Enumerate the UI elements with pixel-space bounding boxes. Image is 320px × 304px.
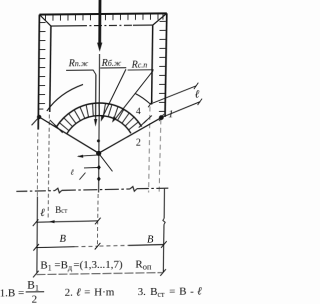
arch right end cap [135, 94, 150, 105]
svg-text:В1=Вд=(1,3...1,7)Rоп: В1=Вд=(1,3...1,7)Rоп [40, 258, 152, 272]
dimension line B right [99, 244, 128, 247]
upper incline line (ell offset) [150, 86, 196, 104]
wall right inner extension (dashed) [149, 107, 150, 193]
wall left inner line [50, 26, 51, 112]
wall left inner extension (dashed) [48, 114, 49, 220]
slash at right junction [159, 114, 164, 121]
arch left end hatch [50, 120, 63, 133]
svg-text:Rп.ж: Rп.ж [68, 58, 89, 69]
svg-text:ℓ: ℓ [40, 207, 45, 219]
diamond mark upper [97, 165, 101, 170]
slash at upper incline start [148, 101, 152, 108]
ground line left part [16, 190, 55, 193]
wall top outer line [39, 13, 166, 14]
slash at end of line 1 [198, 99, 202, 105]
arch hatch ticks [60, 103, 139, 131]
wall left outer extension lower solid [36, 197, 39, 274]
radial line to left junction [39, 116, 99, 153]
leader R s.p [128, 69, 154, 71]
svg-text:1: 1 [168, 109, 173, 120]
svg-text:В: В [147, 234, 154, 245]
slash at B1 right [160, 269, 166, 276]
slash at Vst right [95, 218, 101, 225]
arch right end hatch [139, 115, 152, 127]
main load arrow [98, 0, 101, 44]
arch outer curve [56, 103, 142, 128]
ground break left [55, 188, 62, 193]
break jog on right extension [163, 218, 165, 224]
center left tick 2 [84, 167, 99, 169]
left junction stub [32, 117, 40, 125]
wall left hatch ticks [39, 23, 46, 110]
svg-text:Rб.ж: Rб.ж [101, 58, 122, 69]
wall left outer line [38, 15, 39, 130]
wall right outer line [165, 13, 167, 117]
wall right hatch ticks [159, 21, 166, 111]
slash at upper incline end [194, 83, 198, 89]
leader R p.zh [66, 70, 96, 75]
svg-text:1.В =: 1.В = [0, 287, 24, 299]
center axis line [98, 54, 101, 193]
fraction bar [26, 291, 45, 293]
arrow at Vst left [48, 220, 54, 223]
left junction dot [37, 115, 41, 119]
slash left of ell dim [33, 219, 39, 226]
slash at B1 left [33, 271, 39, 278]
wall top inner line (dash-dot) [51, 25, 79, 27]
arrow R b.zh [103, 69, 126, 116]
slash at B far right [161, 241, 167, 248]
svg-text:2: 2 [136, 138, 141, 149]
line 1 continuation beyond right junction [161, 102, 200, 118]
right junction dot [159, 115, 164, 120]
arch inner curve [67, 115, 131, 134]
center left tick with arrow [78, 155, 99, 156]
leader R b.zh [100, 67, 126, 69]
wall right outer extension (dashed) [159, 119, 161, 192]
svg-text:2.ℓ=Н·m: 2.ℓ=Н·m [65, 286, 115, 298]
slip curve from left wall [47, 84, 83, 111]
wall left outer extension (dashed) [36, 133, 38, 197]
slash at B center [95, 243, 101, 250]
svg-text:2: 2 [32, 294, 38, 304]
slash at B far left [33, 244, 39, 251]
diamond mark lower [97, 176, 101, 181]
slash tick near axis [79, 173, 85, 180]
svg-text:В: В [59, 234, 66, 245]
ground line middle part [62, 189, 130, 190]
arrow R s.p [116, 70, 153, 118]
wall right inner line [152, 25, 153, 104]
diagonal from center down right [99, 153, 113, 171]
right extension lower part [162, 224, 165, 272]
small dot on axis [97, 139, 100, 142]
center axis extension (dashed) [96, 194, 99, 247]
radial line 2 to right junction [99, 118, 162, 154]
arch center point [96, 151, 101, 156]
ground break right [130, 187, 137, 192]
svg-text:4: 4 [136, 107, 141, 117]
svg-text:Rс.п: Rс.п [131, 60, 148, 71]
wall top hatch ticks [45, 14, 163, 21]
wall corner diagonal left [39, 14, 51, 26]
ground line right part [137, 187, 170, 190]
right dimension extension line below ground [163, 189, 165, 219]
dimension line B left [36, 246, 74, 249]
svg-text:Вст: Вст [55, 205, 67, 215]
dimension line Vst [36, 221, 97, 222]
svg-text:ℓ: ℓ [195, 89, 200, 101]
arrow R p.zh [95, 75, 97, 121]
B1 dimension line [36, 273, 163, 275]
wall corner diagonal right [153, 13, 167, 25]
